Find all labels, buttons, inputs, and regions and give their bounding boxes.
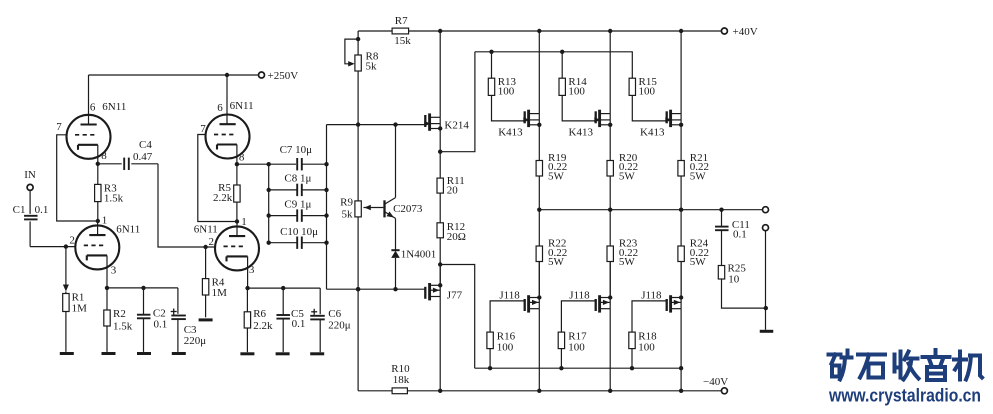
svg-text:5W: 5W xyxy=(548,256,565,268)
svg-text:100: 100 xyxy=(638,342,655,354)
svg-text:C10 10μ: C10 10μ xyxy=(280,226,318,238)
svg-text:5W: 5W xyxy=(619,170,636,182)
svg-text:6: 6 xyxy=(90,102,96,114)
svg-text:+40V: +40V xyxy=(733,26,758,38)
svg-text:R6: R6 xyxy=(253,308,266,320)
svg-text:5W: 5W xyxy=(548,170,565,182)
svg-text:K214: K214 xyxy=(444,119,469,131)
svg-text:6N11: 6N11 xyxy=(194,223,218,235)
svg-text:www.crystalradio.cn: www.crystalradio.cn xyxy=(828,386,981,406)
svg-text:C6: C6 xyxy=(328,308,341,320)
svg-text:3: 3 xyxy=(111,264,117,276)
svg-text:2.2k: 2.2k xyxy=(253,320,273,332)
svg-text:J118: J118 xyxy=(641,289,662,301)
svg-text:1M: 1M xyxy=(72,302,88,314)
svg-text:2: 2 xyxy=(69,234,75,246)
svg-text:3: 3 xyxy=(249,264,255,276)
svg-text:1.5k: 1.5k xyxy=(113,320,133,332)
svg-text:10: 10 xyxy=(728,273,740,285)
svg-text:J77: J77 xyxy=(447,289,463,301)
svg-text:C4: C4 xyxy=(139,139,152,151)
svg-text:C8 1μ: C8 1μ xyxy=(284,173,311,185)
svg-text:1: 1 xyxy=(102,214,108,226)
svg-text:R9: R9 xyxy=(340,197,353,209)
svg-text:5W: 5W xyxy=(619,256,636,268)
svg-text:5W: 5W xyxy=(690,170,707,182)
svg-text:C9 1μ: C9 1μ xyxy=(284,198,311,210)
svg-text:0.1: 0.1 xyxy=(292,318,306,330)
svg-text:5W: 5W xyxy=(690,256,707,268)
svg-text:IN: IN xyxy=(24,169,36,181)
svg-text:K413: K413 xyxy=(498,126,523,138)
svg-text:K413: K413 xyxy=(640,126,665,138)
svg-text:+250V: +250V xyxy=(268,70,299,82)
svg-text:220μ: 220μ xyxy=(328,320,351,332)
svg-text:1N4001: 1N4001 xyxy=(401,249,436,261)
svg-text:6: 6 xyxy=(217,102,223,114)
svg-text:−40V: −40V xyxy=(703,376,728,388)
svg-text:6N11: 6N11 xyxy=(102,101,126,113)
svg-text:8: 8 xyxy=(101,150,107,162)
svg-text:0.1: 0.1 xyxy=(733,228,747,240)
svg-text:6N11: 6N11 xyxy=(230,100,254,112)
svg-text:20: 20 xyxy=(447,185,459,197)
svg-text:2.2k: 2.2k xyxy=(213,192,233,204)
svg-text:7: 7 xyxy=(200,123,206,135)
svg-text:0.47: 0.47 xyxy=(133,151,153,163)
svg-text:5k: 5k xyxy=(366,61,378,73)
svg-text:100: 100 xyxy=(497,342,514,354)
svg-text:7: 7 xyxy=(56,121,62,133)
svg-text:1M: 1M xyxy=(212,287,228,299)
svg-text:15k: 15k xyxy=(394,35,411,47)
svg-text:1.5k: 1.5k xyxy=(104,193,124,205)
svg-text:0.1: 0.1 xyxy=(35,204,49,216)
svg-text:220μ: 220μ xyxy=(184,335,207,347)
svg-text:2: 2 xyxy=(209,236,215,248)
svg-text:C1: C1 xyxy=(13,204,26,216)
svg-text:100: 100 xyxy=(498,85,515,97)
svg-text:C7 10μ: C7 10μ xyxy=(280,144,313,156)
svg-text:20Ω: 20Ω xyxy=(447,231,466,243)
svg-text:100: 100 xyxy=(568,342,585,354)
svg-text:0.1: 0.1 xyxy=(154,318,168,330)
svg-text:100: 100 xyxy=(639,85,656,97)
svg-text:8: 8 xyxy=(239,152,245,164)
svg-text:J118: J118 xyxy=(499,289,520,301)
svg-text:18k: 18k xyxy=(393,374,410,386)
svg-text:100: 100 xyxy=(568,85,585,97)
svg-text:K413: K413 xyxy=(569,126,594,138)
svg-text:R7: R7 xyxy=(395,15,408,27)
svg-text:1: 1 xyxy=(241,216,247,228)
svg-text:C2073: C2073 xyxy=(393,203,423,215)
svg-text:R10: R10 xyxy=(391,363,410,375)
svg-text:J118: J118 xyxy=(569,289,590,301)
svg-text:R2: R2 xyxy=(113,308,126,320)
svg-text:C3: C3 xyxy=(184,324,197,336)
svg-text:5k: 5k xyxy=(342,209,354,221)
svg-text:6N11: 6N11 xyxy=(116,223,140,235)
